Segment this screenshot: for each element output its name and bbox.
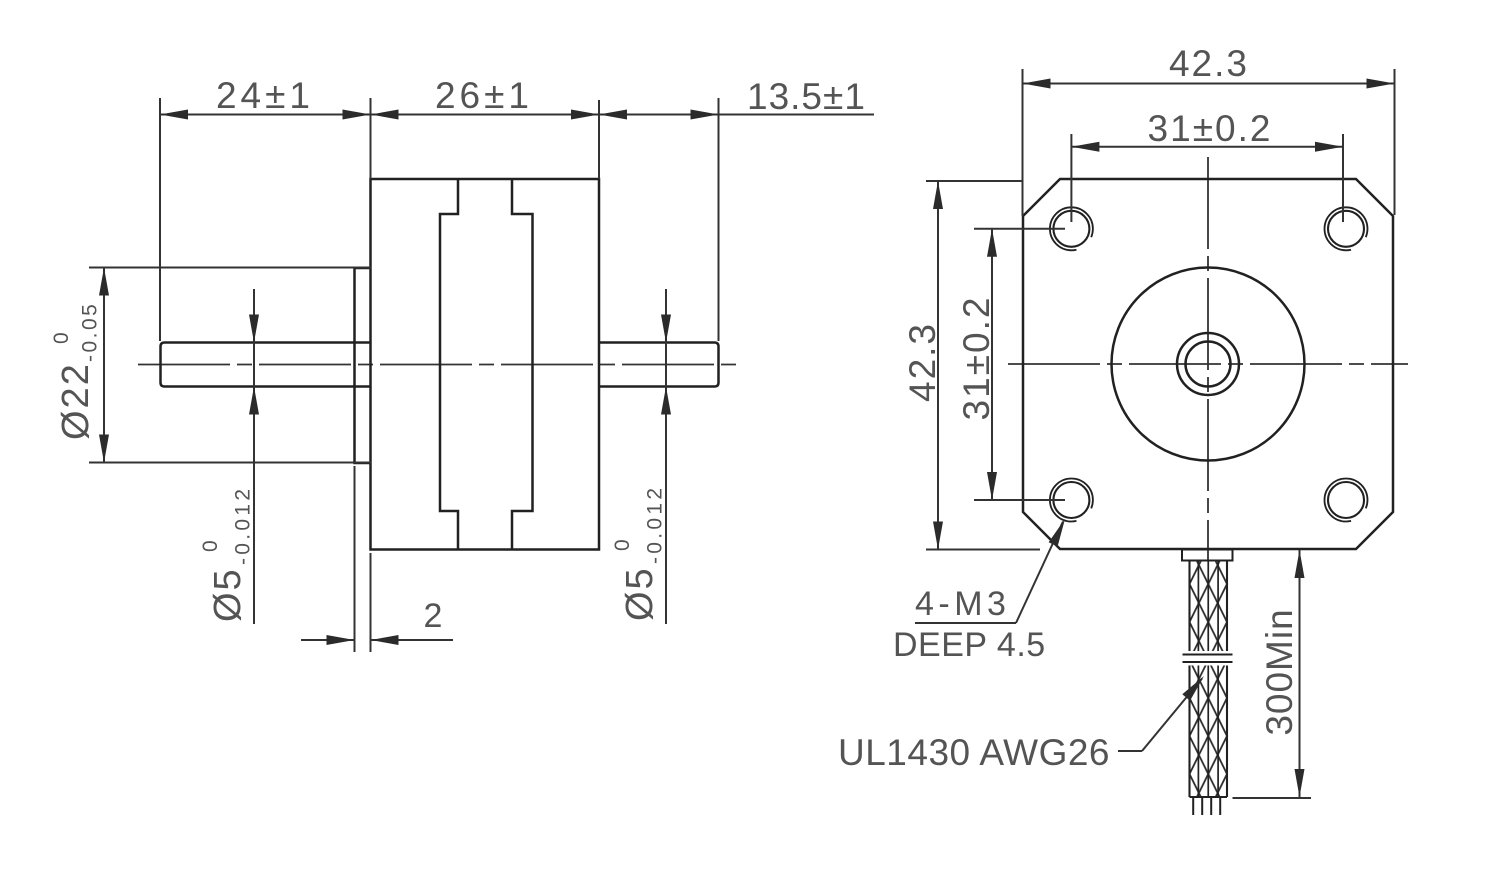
flange outline octagon (front view) [1023, 179, 1393, 549]
extension line body face (2mm) [370, 553, 372, 652]
lead wires [1192, 797, 1194, 815]
front shaft outline [161, 343, 371, 387]
extension line boss face (2mm) [354, 466, 356, 652]
arrowheads 42.3 vertical [933, 181, 943, 209]
shaft circle Ø5 [1186, 342, 1231, 387]
svg-text:0: 0 [199, 539, 222, 552]
svg-text:2: 2 [424, 597, 445, 635]
rear end-cap contour line [512, 179, 533, 550]
leader line 4-M3 [1016, 522, 1063, 624]
extension line hole TR vertical [1342, 134, 1344, 222]
arrowheads 2mm [327, 635, 355, 645]
dimension line Ø5 rear shaft [665, 289, 667, 624]
extension line hole TL horizontal [974, 228, 1065, 230]
shaft hub circle [1177, 333, 1239, 395]
dimension line 300Min [1299, 550, 1301, 797]
dimension line 24/26/13.5 row [160, 114, 874, 116]
dimension line 31±0.2 vertical [991, 229, 993, 500]
cable braid lower section [1190, 666, 1228, 798]
arrowheads Ø5 rear [661, 315, 671, 343]
front end-cap contour line [440, 179, 458, 550]
extension line rear shaft end [718, 98, 720, 341]
svg-text:4-M3: 4-M3 [915, 585, 1010, 623]
extension line flange top (42.3) [926, 180, 1022, 182]
wire centerline of shaft (left view) [138, 364, 738, 366]
svg-text:13.5±1: 13.5±1 [747, 76, 866, 117]
dimension line 2mm right tail [371, 639, 454, 641]
svg-text:42.3: 42.3 [902, 322, 943, 402]
extension line flange bottom (42.3) [926, 549, 1040, 551]
extension line boss top (Ø22) [89, 267, 371, 269]
svg-text:0: 0 [50, 331, 73, 344]
pilot boss outline (2mm) [355, 268, 371, 463]
extension line body front face [370, 98, 372, 179]
arrowheads 31±0.2 vertical [987, 229, 997, 257]
leader arrowhead UL1430 [1182, 676, 1204, 701]
motor body outline (side view) [371, 179, 600, 550]
dimension line 42.3 horizontal [1023, 83, 1395, 85]
svg-text:42.3: 42.3 [1169, 43, 1249, 84]
centerline horizontal (front view) [1008, 363, 1408, 365]
mounting hole M3 bottom-left [1053, 482, 1089, 518]
dimension line Ø5 front shaft [253, 289, 255, 624]
arrowheads Ø22 [99, 268, 109, 296]
extension line boss bottom (Ø22) [89, 462, 371, 464]
svg-text:-0.012: -0.012 [232, 486, 255, 565]
leader arrowhead 4-M3 [1049, 519, 1065, 547]
svg-text:-0.05: -0.05 [79, 302, 102, 362]
arrowheads 42.3 horizontal [1023, 79, 1051, 89]
dimension line Ø22 [103, 268, 105, 463]
svg-text:DEEP 4.5: DEEP 4.5 [893, 626, 1046, 664]
svg-text:300Min: 300Min [1259, 608, 1300, 735]
centerline vertical (front view) [1207, 157, 1209, 560]
cable break line upper [1183, 654, 1233, 656]
rear shaft outline [599, 343, 719, 387]
extension line body rear face [598, 100, 600, 179]
pilot circle Ø22 [1112, 268, 1305, 461]
extension line left shaft end [159, 98, 161, 341]
cable braid upper section [1190, 561, 1228, 652]
svg-text:Ø5: Ø5 [207, 567, 249, 622]
label underline 4-M3 [915, 622, 1016, 624]
leader dash UL1430 [1118, 750, 1142, 752]
mounting hole M3 bottom-right [1328, 482, 1364, 518]
svg-text:-0.012: -0.012 [644, 485, 667, 564]
svg-text:31±0.2: 31±0.2 [956, 296, 997, 421]
extension line hole TL vertical [1070, 134, 1072, 222]
extension line flange left edge [1022, 69, 1024, 216]
svg-text:Ø22: Ø22 [55, 362, 97, 440]
svg-text:26±1: 26±1 [435, 75, 533, 116]
extension line cable end (300Min) [1233, 797, 1312, 799]
svg-text:31±0.2: 31±0.2 [1148, 108, 1273, 149]
arrowheads top dimension row [160, 110, 188, 120]
extension line flange right edge [1394, 69, 1396, 215]
dimension text Ø5 0/-0.012 (rear) [611, 485, 667, 621]
mounting hole M3 top-left [1053, 211, 1089, 247]
cable break line lower [1183, 661, 1233, 663]
dimension line 42.3 vertical [937, 181, 939, 550]
arrowheads 31±0.2 horizontal [1071, 142, 1099, 152]
dimension line 31±0.2 horizontal [1071, 146, 1343, 148]
extension line hole BL horizontal [974, 499, 1065, 501]
dimension line 2mm left tail [301, 639, 355, 641]
svg-text:UL1430 AWG26: UL1430 AWG26 [838, 732, 1110, 773]
mounting hole M3 top-right [1328, 211, 1364, 247]
leader line UL1430 [1142, 679, 1202, 752]
cable connector block [1182, 550, 1233, 561]
arrowheads Ø5 front [249, 315, 259, 343]
svg-text:0: 0 [611, 538, 634, 551]
dimension text Ø5 0/-0.012 (front) [199, 486, 255, 622]
svg-text:24±1: 24±1 [216, 75, 314, 116]
dimension text Ø22 0/-0.05 [50, 302, 102, 440]
svg-text:Ø5: Ø5 [619, 566, 661, 621]
arrowheads 300Min [1295, 550, 1305, 578]
